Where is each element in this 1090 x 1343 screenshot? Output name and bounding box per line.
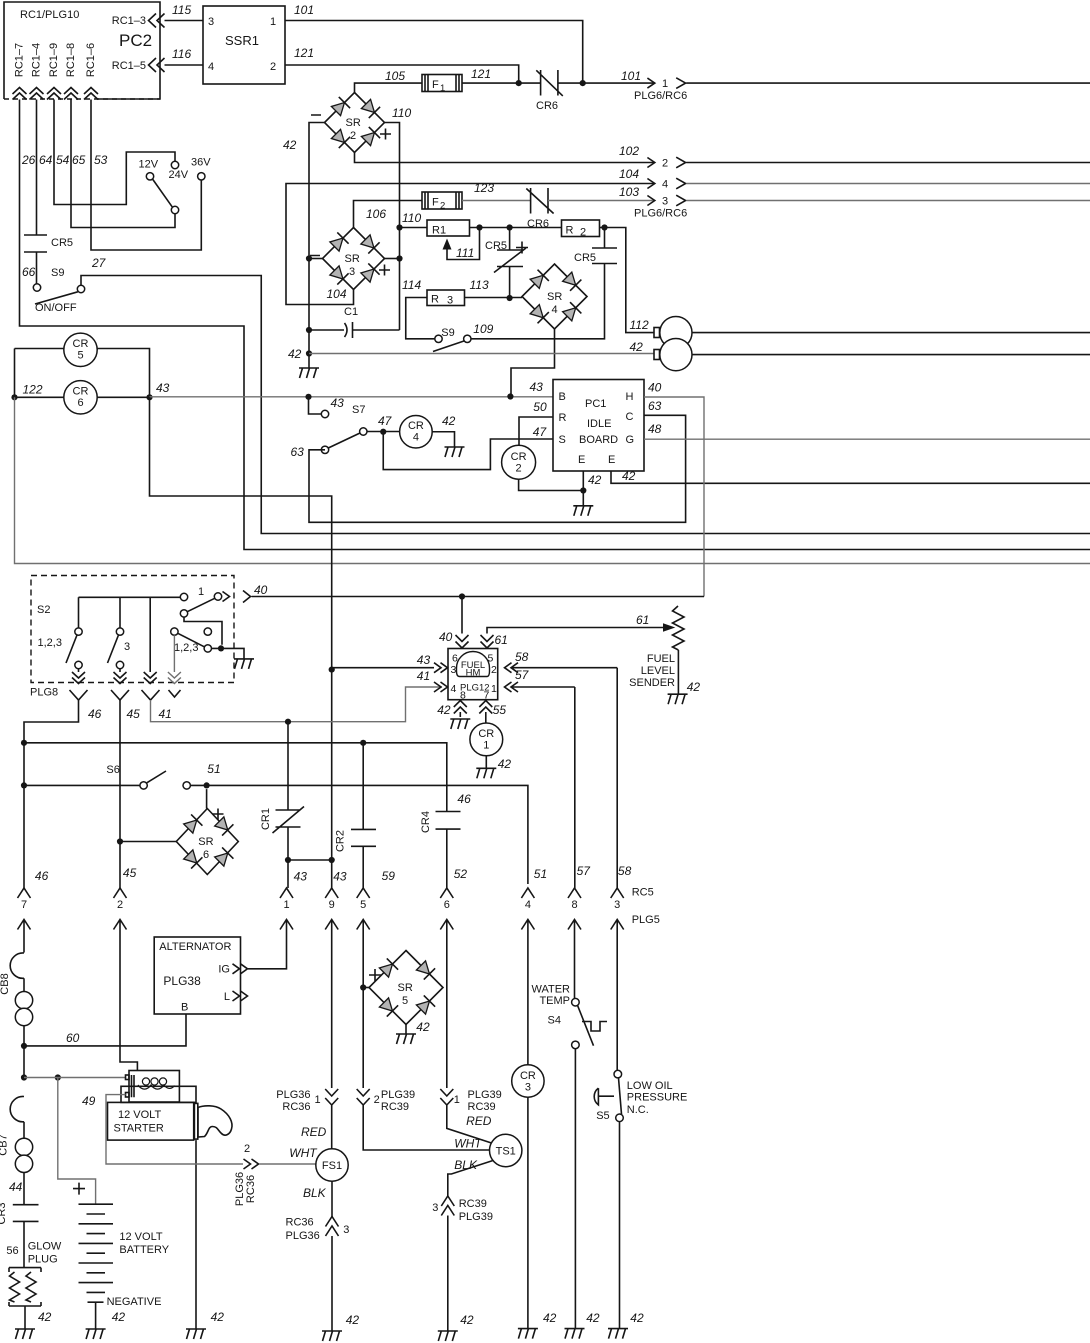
switch S2 selector 2 (1,2,3) [168,628,212,684]
svg-text:3: 3 [447,295,453,307]
ground FUEL LEVEL SENDER [668,694,688,704]
arrow alternator IG [233,964,248,974]
wire 63 to PC1 C [309,399,686,522]
svg-text:IDLE: IDLE [587,418,611,430]
svg-text:40: 40 [439,630,453,644]
potentiometer wiper R1 [443,228,480,261]
svg-text:12 VOLT: 12 VOLT [118,1109,161,1121]
wire 115 [165,3,204,21]
junction 41 to CR1 [285,719,291,725]
svg-text:4: 4 [552,304,558,316]
svg-text:6: 6 [444,899,450,911]
svg-text:STARTER: STARTER [114,1123,164,1135]
svg-text:PLG5: PLG5 [632,914,660,926]
svg-text:116: 116 [172,47,191,61]
svg-text:42: 42 [586,1311,600,1325]
pin RC5-2 [114,888,138,1071]
svg-text:4: 4 [451,683,457,695]
svg-text:2: 2 [244,1143,250,1155]
switch S5 LOW OIL PRESSURE [594,1070,687,1328]
pin RC5-9 [325,888,338,1088]
pin RC5-7 [18,888,31,953]
pin RC5-8 [568,888,581,998]
svg-text:CR5: CR5 [574,252,596,264]
pin RC1-8 [64,43,78,100]
svg-text:PLG39: PLG39 [381,1089,415,1101]
svg-text:WATER: WATER [532,984,571,996]
wire S2 to ground [212,645,245,659]
rectifier SR2 [311,93,391,153]
svg-text:51: 51 [534,867,547,881]
svg-text:CR: CR [73,338,89,350]
wire R1 right [470,224,510,230]
svg-text:42: 42 [416,1020,430,1034]
ground S2 [234,659,254,669]
pin RC1-5 [112,58,165,72]
wire 105 SR2 top to F1 [355,69,423,93]
svg-text:FS1: FS1 [322,1160,342,1172]
svg-text:CR: CR [478,728,494,740]
svg-text:GLOW: GLOW [28,1241,62,1253]
wire battery feed [21,1074,126,1204]
svg-text:S5: S5 [596,1110,609,1122]
resistor GLOW PLUG [6,1241,62,1330]
svg-text:CR: CR [408,420,424,432]
wire 61 [481,613,676,648]
svg-text:R: R [566,225,574,237]
svg-text:36V: 36V [191,157,211,169]
svg-text:RC39: RC39 [468,1101,496,1113]
svg-text:42: 42 [630,340,644,354]
svg-text:R: R [559,412,567,424]
svg-text:1: 1 [270,16,276,28]
svg-text:RED: RED [466,1114,492,1128]
svg-text:PLG39: PLG39 [468,1089,502,1101]
connector PLG39 pin2 [357,1089,490,1151]
svg-text:7: 7 [21,899,27,911]
svg-text:63: 63 [291,445,305,459]
svg-text:58: 58 [515,650,529,664]
switch S4 WATER TEMP [532,984,608,1329]
svg-text:RC36: RC36 [245,1175,257,1203]
svg-text:2: 2 [270,61,276,73]
svg-text:41: 41 [159,707,172,721]
svg-text:CR: CR [520,1070,536,1082]
wire RC1-8 to switch pole [71,100,175,228]
ground E1 [573,506,593,516]
wire 43 link CR1 [285,857,335,888]
ground FUEL pin8 [450,719,470,729]
svg-text:63: 63 [648,399,662,413]
svg-text:R1: R1 [432,225,446,237]
ground FS1 [322,1331,342,1341]
breaker CB7 [0,1096,33,1204]
wire 26 from RC1-7 [20,100,1090,550]
switch S9 (second) [433,322,494,352]
capacitor C1 [306,306,400,338]
wire 40 bus [223,583,705,603]
wire 46 bus [24,740,447,812]
svg-text:BLK: BLK [454,1158,478,1172]
svg-text:1,2,3: 1,2,3 [38,637,62,649]
svg-text:112: 112 [630,318,649,332]
svg-text:RC39: RC39 [459,1198,487,1210]
svg-text:C: C [626,411,634,423]
svg-text:61: 61 [636,613,649,627]
node SR3 right [385,255,403,261]
svg-text:42: 42 [437,703,451,717]
svg-text:LOW OIL: LOW OIL [627,1080,673,1092]
ground battery [86,1329,106,1339]
solenoid fuel valve [654,317,1090,371]
capacitor CR5 (right) [471,228,617,339]
capacitor CR2 [335,743,396,888]
svg-text:B: B [559,391,566,403]
svg-text:4: 4 [413,432,419,444]
switch S2 bank 3 arrow [144,672,157,684]
svg-text:26: 26 [21,153,36,167]
contact CR6 (second) [526,188,553,230]
svg-text:1: 1 [483,740,489,752]
svg-text:TS1: TS1 [496,1146,516,1158]
svg-text:42: 42 [346,1313,360,1327]
pin RC5-4 [521,888,534,1065]
svg-text:RC1–8: RC1–8 [65,43,77,77]
svg-text:RC1–6: RC1–6 [85,43,97,77]
wire 42 FUEL pin8 [437,701,467,718]
svg-text:SR: SR [198,836,213,848]
starter solenoid [82,1071,196,1109]
wire 40 PC1 H [644,381,704,597]
wire 112 [605,228,655,333]
svg-text:PLG6/RC6: PLG6/RC6 [634,90,687,102]
svg-text:5: 5 [77,350,83,362]
svg-text:CB7: CB7 [0,1134,10,1155]
svg-text:TEMP: TEMP [539,995,570,1007]
svg-text:4: 4 [525,899,531,911]
svg-text:PLG6/RC6: PLG6/RC6 [634,208,687,220]
temp sender TS1 [448,1134,522,1196]
svg-text:ON/OFF: ON/OFF [35,302,77,314]
svg-text:43: 43 [156,381,170,395]
svg-text:S2: S2 [37,604,50,616]
fuse F1 [422,75,462,95]
svg-text:122: 122 [23,383,43,397]
connector PLG6/RC6 pin 4 [647,178,1090,190]
svg-text:S: S [559,434,566,446]
svg-text:2: 2 [350,130,356,142]
switch S2 bank 1 [38,597,183,683]
svg-text:3: 3 [525,1082,531,1094]
wire 43 to FUEL pin3 [329,653,448,673]
svg-text:2: 2 [374,1094,380,1106]
pin RC5-3 [611,888,624,1070]
svg-text:1: 1 [491,683,497,695]
ground S4 [565,1329,585,1339]
node R2 right [600,224,608,230]
svg-text:46: 46 [35,869,49,883]
connector PLG6/RC6 pin 1 [634,78,1090,102]
svg-text:PRESSURE: PRESSURE [627,1092,688,1104]
svg-text:CR5: CR5 [485,240,507,252]
wire to R2 [510,227,562,229]
svg-text:5: 5 [488,653,494,665]
svg-text:59: 59 [382,869,396,883]
svg-text:2: 2 [662,158,668,170]
resistor FUEL LEVEL SENDER [629,606,700,694]
wire RC1-9 to 24V [54,100,175,205]
svg-text:RED: RED [301,1125,327,1139]
svg-text:H: H [626,391,634,403]
pin RC5-1 [248,888,293,969]
pin RC5-6 [440,888,453,1088]
svg-text:6: 6 [77,397,83,409]
svg-text:E: E [608,454,615,466]
pin RC1-6 [84,43,98,100]
svg-text:PLG36: PLG36 [286,1230,320,1242]
board PC1 IDLE BOARD [553,380,644,472]
svg-text:IG: IG [218,964,230,976]
switch 12V/24V/36V [139,157,212,214]
svg-text:46: 46 [88,707,102,721]
resistor R3 [402,278,489,307]
wire starter to ground [196,1140,224,1329]
svg-text:49: 49 [82,1094,96,1108]
switch S2 selector 1 [180,586,222,645]
svg-text:2: 2 [491,664,497,676]
pin RC1-9 [47,43,61,100]
svg-text:45: 45 [127,707,141,721]
wire PLG36 pin2 [106,1095,318,1207]
svg-text:S9: S9 [441,327,454,339]
svg-text:CR4: CR4 [420,811,432,833]
wire 57 FUEL pin1 [505,668,575,888]
wire 123 F2 to CR6 [462,181,531,201]
wire 116 [165,47,204,65]
connector PC2 RC1/PLG10 box [4,2,160,99]
contact CR6 (top) [536,70,563,112]
node SR3 left [306,255,323,261]
ground CR4 [445,447,465,457]
svg-text:53: 53 [94,153,108,167]
svg-text:5: 5 [402,995,408,1007]
wire 51 label [534,867,547,881]
svg-text:2: 2 [440,201,445,212]
svg-text:102: 102 [619,144,639,158]
wire 103 [548,185,655,201]
ground SR5 [396,1034,416,1044]
svg-text:6: 6 [452,653,458,665]
svg-text:RC1/PLG10: RC1/PLG10 [20,9,79,21]
svg-text:56: 56 [6,1245,18,1257]
wire R3 right node 113 [465,295,523,301]
svg-text:3: 3 [349,266,355,278]
svg-text:105: 105 [385,69,405,83]
svg-text:43: 43 [417,653,431,667]
svg-text:PLUG: PLUG [28,1254,58,1266]
svg-text:42: 42 [498,757,512,771]
battery 12 VOLT BATTERY [73,1183,170,1329]
svg-text:40: 40 [254,583,268,597]
svg-text:42: 42 [442,414,456,428]
svg-text:42: 42 [288,347,302,361]
svg-text:E: E [578,454,585,466]
svg-text:SENDER: SENDER [629,677,675,689]
svg-text:1: 1 [454,1094,460,1106]
svg-text:F: F [432,79,439,91]
svg-text:NEGATIVE: NEGATIVE [107,1296,162,1308]
wire SR4 bottom to 43 [511,329,555,397]
svg-text:3: 3 [124,641,130,653]
svg-text:42: 42 [622,469,636,483]
lamp CR1 [470,723,511,771]
svg-text:66: 66 [22,265,36,279]
svg-text:CB8: CB8 [0,973,11,994]
svg-text:1: 1 [198,586,204,598]
svg-text:57: 57 [515,668,530,682]
svg-text:65: 65 [72,153,86,167]
svg-text:SR: SR [547,291,562,303]
svg-text:G: G [626,434,635,446]
resistor R1 [427,220,470,237]
svg-text:4: 4 [662,179,668,191]
svg-text:RC1–7: RC1–7 [13,43,25,77]
svg-text:PLG8: PLG8 [30,687,58,699]
svg-text:115: 115 [172,3,191,17]
pin RC1-3 [112,14,165,28]
svg-text:110: 110 [392,106,411,120]
wire 58 FUEL pin2 [505,650,618,888]
svg-text:RC36: RC36 [286,1217,314,1229]
svg-text:58: 58 [618,864,632,878]
wire SR5 left [360,984,369,990]
svg-text:RC39: RC39 [381,1101,409,1113]
svg-text:3: 3 [432,1202,438,1214]
svg-text:3: 3 [614,899,620,911]
svg-text:12V: 12V [139,159,159,171]
svg-text:PC1: PC1 [585,398,606,410]
svg-text:48: 48 [648,422,662,436]
lamp CR2 [502,445,584,490]
contact CR1 [260,722,304,860]
svg-text:2: 2 [580,227,586,239]
svg-text:101: 101 [294,3,314,17]
pin RC5-5 [357,888,370,1088]
svg-text:CR3: CR3 [0,1202,8,1224]
svg-text:104: 104 [327,287,347,301]
svg-text:24V: 24V [169,169,189,181]
ground CR3 [518,1329,538,1339]
resistor R2 [562,220,600,239]
svg-text:54: 54 [56,153,70,167]
svg-text:R: R [431,294,439,306]
svg-text:SR: SR [345,253,360,265]
svg-text:104: 104 [619,167,639,181]
wire 41 from PLG8-3 [151,687,442,722]
svg-text:61: 61 [495,633,508,647]
svg-text:9: 9 [329,899,335,911]
svg-text:46: 46 [457,792,471,806]
svg-text:1: 1 [315,1094,321,1106]
wire 122 down-right [15,397,1090,563]
switch S6 [21,762,528,884]
wire PC1 E1 to ground [580,471,601,506]
svg-text:RC1–3: RC1–3 [112,15,146,27]
wire 42 bus [288,340,654,368]
wire alternator B to 60 [21,1014,186,1049]
wire 104 [286,167,655,305]
svg-text:43: 43 [294,870,308,884]
svg-text:47: 47 [378,414,393,428]
wire 40 drop to FUEL [439,597,469,649]
svg-text:CR: CR [511,451,527,463]
svg-text:RC5: RC5 [632,887,654,899]
svg-text:BATTERY: BATTERY [119,1244,169,1256]
svg-text:106: 106 [366,207,386,221]
svg-text:43: 43 [331,396,345,410]
svg-text:LEVEL: LEVEL [641,665,675,677]
wire 47 to PC1 S [383,425,553,470]
svg-text:47: 47 [533,425,548,439]
pin RC1-7 [13,43,27,100]
svg-text:42: 42 [588,473,602,487]
svg-text:C1: C1 [344,306,358,318]
meter FUEL HM PLG12 [448,649,498,702]
lamp CR4 [400,414,456,448]
connector PLG39 pin1 [440,1089,501,1144]
svg-text:12 VOLT: 12 VOLT [119,1231,162,1243]
switch S2 box [31,576,234,683]
svg-text:CR6: CR6 [536,100,558,112]
svg-text:L: L [224,991,230,1003]
capacitor CR3 [0,1202,39,1267]
lamp CR3 [512,1065,557,1329]
svg-text:3: 3 [451,664,457,676]
wire 55 FUEL pin7 [479,701,506,724]
svg-text:FUEL: FUEL [647,653,675,665]
capacitor CR4 [420,792,471,888]
svg-text:BOARD: BOARD [579,434,618,446]
svg-text:2: 2 [117,899,123,911]
svg-text:PLG38: PLG38 [163,974,201,988]
svg-text:52: 52 [454,867,468,881]
arrow FUEL pin4 [417,669,448,692]
ground TS1 [438,1331,458,1341]
svg-text:RC1–9: RC1–9 [48,43,60,77]
svg-text:42: 42 [630,1311,644,1325]
wire RC1-4 drop [37,100,53,236]
wire SR6 left to 45 [117,838,176,844]
svg-text:50: 50 [533,400,547,414]
svg-text:PC2: PC2 [119,31,152,50]
svg-text:8: 8 [571,899,577,911]
wire 121 F1 to CR6 [462,67,541,83]
svg-text:43: 43 [530,380,544,394]
wire 46 from PLG8-1 [24,700,102,888]
svg-text:PLG36: PLG36 [276,1089,310,1101]
svg-text:CR1: CR1 [260,808,272,830]
svg-text:123: 123 [474,181,494,195]
wire 110 to R1 [396,211,427,231]
svg-text:S9: S9 [51,267,64,279]
alternator box [154,937,240,1014]
svg-text:51: 51 [207,762,220,776]
svg-text:1: 1 [283,899,289,911]
svg-text:PLG12: PLG12 [460,683,490,694]
svg-text:S7: S7 [352,404,365,416]
svg-text:27: 27 [91,256,107,270]
rectifier SR3 [310,228,390,290]
